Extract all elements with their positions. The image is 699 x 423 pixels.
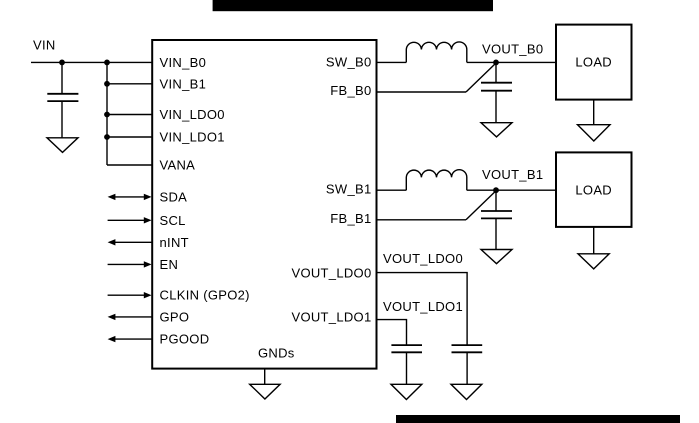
wire VIN_LDO0 — [107, 114, 152, 116]
PMIC block U1 — [152, 40, 376, 369]
wire L1 to LOAD1 — [467, 61, 556, 63]
svg-text:GNDs: GNDs — [258, 345, 295, 360]
PGOOD output arrow — [108, 336, 152, 342]
wire COUT_B0 to ground — [495, 91, 497, 123]
junction dot VIN bus — [104, 60, 110, 66]
wire VIN bus vertical — [106, 62, 108, 165]
svg-text:EN: EN — [160, 257, 179, 272]
svg-text:SDA: SDA — [160, 189, 188, 204]
wire C_LDO0 to ground — [466, 352, 468, 384]
junction dot VIN_LDO0 — [104, 112, 110, 118]
wire L2 to LOAD2 — [467, 189, 556, 191]
wire LOAD1 to ground — [593, 100, 595, 125]
ground C_LDO0 — [451, 384, 482, 399]
capacitor COUT_B0 — [481, 83, 512, 91]
svg-text:VANA: VANA — [160, 158, 196, 173]
capacitor CIN — [47, 94, 78, 101]
inductor L1 — [406, 42, 467, 62]
svg-text:CLKIN (GPO2): CLKIN (GPO2) — [160, 288, 250, 303]
EN input arrow — [108, 261, 152, 267]
ground CIN — [47, 138, 78, 153]
svg-text:VOUT_LDO1: VOUT_LDO1 — [383, 299, 463, 314]
wire SW_B1 — [377, 189, 407, 191]
svg-text:VOUT_B1: VOUT_B1 — [482, 167, 543, 182]
wire VOUT_LDO0 — [377, 273, 468, 346]
wire SW_B0 — [377, 61, 407, 63]
wire VIN to input capacitor — [61, 62, 63, 93]
wire C_LDO1 to ground — [406, 352, 408, 384]
wire FB_B1 diagonal — [466, 191, 496, 220]
svg-text:FB_B1: FB_B1 — [330, 211, 371, 226]
wire VANA — [107, 164, 152, 166]
svg-text:VIN: VIN — [33, 38, 56, 53]
ground LOAD1 — [578, 125, 611, 141]
svg-text:VIN_LDO0: VIN_LDO0 — [160, 107, 225, 122]
svg-text:LOAD: LOAD — [575, 55, 612, 70]
svg-text:PGOOD: PGOOD — [160, 332, 210, 347]
capacitor C_LDO0 — [452, 345, 483, 352]
load block 2 — [556, 152, 632, 227]
GPO output arrow — [108, 314, 152, 320]
wire CIN to ground — [61, 101, 63, 138]
junction dot input capacitor — [59, 60, 65, 66]
svg-text:SW_B0: SW_B0 — [326, 55, 372, 70]
capacitor COUT_B1 — [481, 211, 512, 218]
svg-text:VOUT_LDO0: VOUT_LDO0 — [291, 265, 371, 280]
svg-text:GPO: GPO — [160, 309, 190, 324]
junction dot VIN_B1 — [104, 81, 110, 87]
wire COUT_B1 to ground — [495, 218, 497, 249]
ground C_LDO1 — [391, 384, 422, 399]
junction dot VIN_LDO1 — [104, 134, 110, 140]
wire VOUT_LDO1 — [377, 320, 407, 346]
wire VOUT_B1 to capacitor — [495, 190, 497, 211]
SCL input arrow — [108, 217, 152, 223]
ground COUT_B0 — [481, 123, 512, 137]
svg-text:SW_B1: SW_B1 — [326, 182, 372, 197]
svg-text:nINT: nINT — [160, 235, 189, 250]
capacitor C_LDO1 — [391, 345, 422, 352]
nINT output arrow — [108, 239, 152, 245]
ground LOAD2 — [578, 254, 609, 269]
CLKIN input arrow — [108, 292, 152, 298]
wire LOAD2 to ground — [593, 227, 595, 254]
svg-text:VIN_B0: VIN_B0 — [160, 55, 207, 70]
inductor L2 — [406, 170, 467, 190]
svg-text:LOAD: LOAD — [575, 183, 612, 198]
wire FB_B0 — [377, 91, 467, 93]
svg-text:VIN_B1: VIN_B1 — [160, 76, 207, 91]
svg-text:FB_B0: FB_B0 — [330, 83, 371, 98]
SDA bidirectional arrow — [108, 194, 152, 200]
junction dot VOUT_B0 — [493, 60, 499, 66]
ground GNDs pin — [264, 369, 266, 385]
wire VIN_B1 — [107, 83, 152, 85]
ground COUT_B1 — [481, 250, 512, 264]
svg-text:VOUT_B0: VOUT_B0 — [482, 42, 543, 57]
wire VOUT_B0 to capacitor — [495, 62, 497, 82]
svg-text:VIN_LDO1: VIN_LDO1 — [160, 130, 225, 145]
junction dot VOUT_B1 — [493, 187, 499, 193]
svg-text:VOUT_LDO0: VOUT_LDO0 — [383, 251, 463, 266]
wire VIN_LDO1 — [107, 136, 152, 138]
svg-text:SCL: SCL — [160, 213, 186, 228]
load block 1 — [556, 25, 632, 100]
wire VIN input — [31, 61, 152, 63]
svg-text:VOUT_LDO1: VOUT_LDO1 — [291, 310, 371, 325]
wire FB_B0 diagonal — [466, 63, 496, 92]
wire FB_B1 — [377, 219, 467, 221]
